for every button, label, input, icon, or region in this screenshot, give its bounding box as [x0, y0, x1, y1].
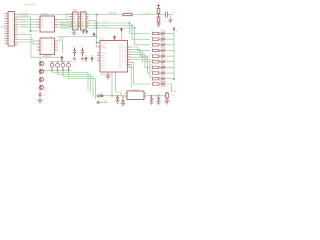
capacitor C11 left column [38, 93, 41, 98]
svg-text:XTAL2: XTAL2 [102, 47, 108, 50]
svg-text:Q1 4MHz: Q1 4MHz [130, 89, 139, 91]
resistor R6 label [151, 59, 153, 61]
pin header JP1 pins [70, 14, 89, 27]
LED D5 [162, 53, 166, 58]
LED D1 [162, 31, 166, 36]
vcc arrows right of caps [85, 57, 93, 62]
svg-text:T3: T3 [45, 79, 47, 81]
resistor R10 label [151, 81, 154, 83]
svg-text:R5: R5 [151, 53, 153, 55]
top-right resistor R18 vertical lower [157, 15, 160, 25]
wire y36.5 from left to IC1 [57, 37, 97, 54]
crystal Q1 box [127, 91, 144, 100]
top-right ground under R18 [157, 24, 161, 27]
resistor R2 label [151, 36, 153, 38]
bottom labels near jumpers [100, 93, 102, 95]
junction dots caps bottom [51, 70, 69, 72]
wire LED1 to rail [164, 33, 174, 35]
pin header JP1 inner pin marks [73, 14, 83, 27]
wire IC1 P1.6 to LED row10 [131, 62, 151, 84]
IC U2 right pins [55, 20, 58, 28]
LED anode rail [173, 31, 175, 79]
wire IC1 P1.4 to LED row8 [131, 57, 151, 73]
IC IC1 name below [100, 73, 112, 76]
wire LED6 to rail [164, 61, 174, 63]
net label GND left of connector [1, 27, 6, 29]
svg-text:T4: T4 [45, 87, 47, 89]
wire IC1 P1.1 to LED row5 [131, 50, 151, 57]
top-right resistor R17 vertical [157, 9, 160, 15]
label T1 [45, 63, 47, 65]
IC IC1 body [100, 41, 128, 73]
connector X1 pin numbers [9, 13, 14, 45]
transistor T4 [39, 85, 43, 89]
transistor T3 [39, 77, 43, 81]
capacitor C3 electrolytic [56, 62, 60, 71]
pin header JP1 column A [73, 12, 79, 30]
label C6 [72, 46, 75, 48]
top-right capacitor plus sign [163, 11, 165, 13]
wire bus net3 to LED row3 [135, 28, 151, 45]
svg-text:25: 25 [9, 43, 11, 45]
labels above vcc arrows [84, 56, 94, 58]
LED D10 label [160, 80, 164, 82]
wire IC1 P1.2 to LED row6 [131, 52, 151, 62]
wire LED5 to rail [164, 55, 174, 57]
resistor R9 [152, 78, 161, 80]
caps bottom wire [49, 70, 72, 72]
wire bus to IC1 region [58, 21, 135, 29]
wire LED9 to rail [164, 78, 174, 80]
capacitor C7 polarized near JP1 [81, 48, 84, 57]
LED D2 [162, 36, 166, 41]
LED D1 label [160, 30, 164, 32]
capacitor C5 electrolytic [67, 62, 71, 71]
resistor R5 [152, 55, 161, 57]
rail end junction dot [173, 78, 175, 80]
IC IC1 right pins [128, 47, 131, 67]
wire LED2 to rail [164, 38, 174, 40]
svg-text:HC49: HC49 [171, 95, 176, 97]
resistor R9 label [151, 76, 153, 78]
svg-text:A: A [176, 30, 178, 34]
IC IC1 right pin numbers [125, 47, 127, 69]
label T4 [45, 87, 47, 89]
svg-text:16MHz: 16MHz [171, 91, 177, 93]
resistor R3 label [151, 42, 153, 44]
svg-text:GND: GND [1, 27, 6, 29]
bottom right labels [171, 91, 177, 96]
resistor R4 label [151, 48, 153, 50]
svg-text:R10: R10 [151, 81, 154, 83]
svg-text:R4: R4 [151, 48, 153, 50]
IC U3 left pins [37, 41, 40, 50]
wire connector to U2 pins [18, 20, 38, 28]
wire LED4 to rail [164, 49, 174, 51]
junction dot x30.5 y31 [30, 30, 32, 32]
wire LED10 right [164, 84, 171, 92]
label C11 [43, 95, 46, 97]
ground under C12 [121, 103, 125, 106]
resistor R8 [152, 72, 161, 74]
junction dot x96.5 y36.5 [96, 36, 98, 38]
junction dots x96.5 [96, 14, 98, 30]
IC U3 pin names [41, 40, 53, 52]
LED D6 label [160, 58, 164, 60]
LED D4 label [160, 47, 164, 49]
LED D6 [162, 59, 166, 64]
top-right capacitor wire and ground [168, 15, 171, 21]
ground under C8 [115, 101, 119, 104]
svg-text:P1.6: P1.6 [21, 26, 25, 28]
left column vertical wire [31, 57, 49, 99]
svg-text:P3.7: P3.7 [102, 68, 106, 70]
LED D9 label [160, 75, 164, 77]
svg-text:1: 1 [125, 67, 126, 69]
top-right junction dot [158, 14, 160, 16]
svg-text:T2: T2 [45, 71, 47, 73]
transistor T1 [39, 61, 43, 65]
wire U2 outputs to JP1 [58, 14, 71, 27]
IC U2 left pins [37, 20, 40, 28]
top-right +5V symbol [157, 4, 160, 8]
LED D3 label [160, 41, 164, 43]
label under row9 [160, 82, 168, 84]
svg-text:LEDCOM: LEDCOM [160, 87, 168, 89]
connector X1 right pins [15, 15, 18, 45]
top-right capacitor C1 [166, 12, 168, 18]
junction dot C10 [158, 95, 160, 97]
wire connector lower pins to U3 [18, 37, 38, 44]
resistor R7 label [151, 65, 153, 67]
resistor R7 [152, 66, 161, 68]
wire J2 right [99, 101, 108, 103]
IC U2 pin names [41, 18, 53, 29]
IC U2 label [41, 13, 48, 16]
svg-text:24: 24 [12, 42, 14, 44]
svg-text:P1.5: P1.5 [21, 21, 25, 23]
resistor R2 [152, 38, 161, 40]
svg-text:R2: R2 [151, 36, 153, 38]
resistor R6 [152, 61, 161, 63]
ground under IC1 [106, 74, 111, 79]
resistor R10 [152, 83, 161, 85]
svg-text:R7: R7 [151, 65, 153, 67]
svg-text:S1: S1 [100, 93, 102, 95]
top-right cap ground [169, 20, 173, 23]
bottom right vertical part R20 [166, 92, 169, 101]
bottom cluster jumper J2 pad [97, 101, 99, 103]
label T2 [45, 71, 47, 73]
svg-text:RESET: RESET [109, 12, 118, 15]
IC U2 body [40, 16, 55, 32]
bottom wire horizontal y95.8 [103, 95, 167, 97]
wire xtal1 vertical [111, 74, 113, 96]
bus net labels [103, 21, 108, 28]
rail top label A [176, 30, 178, 34]
LED D8 label [160, 69, 164, 71]
connector X1 left pins [5, 14, 9, 44]
wire bus net1 to LED row1 [130, 23, 151, 34]
net label on wire y57 [42, 56, 50, 58]
title label ALE MODE [24, 4, 37, 7]
bottom capacitor C12 [121, 96, 124, 104]
wire stubs under C6 C7 [75, 56, 83, 58]
svg-text:ALE MODE: ALE MODE [24, 4, 37, 7]
wire IC1 P1.5 to LED row9 [131, 60, 151, 79]
wire IC1 P1.0 to LED row4 [131, 47, 151, 50]
bottom cluster jumper J1 pad [97, 95, 99, 97]
label C7 [80, 46, 83, 48]
crystal Q1 pins [125, 94, 146, 98]
LED D7 label [160, 64, 164, 66]
svg-text:C2/RST: C2/RST [42, 56, 50, 58]
wire xtal2 vertical [116, 74, 122, 96]
vcc arrow above caps [61, 56, 63, 62]
ground under C10 [156, 102, 160, 105]
wire bus y31 from junction [31, 30, 39, 32]
svg-text:IC1: IC1 [100, 38, 104, 41]
label under row10 [160, 87, 168, 89]
ground under C6 [73, 58, 77, 61]
wire top long net y14.5 [18, 14, 159, 16]
bottom capacitor C8 [116, 96, 119, 101]
wire label P3.0 [20, 13, 30, 35]
IC U3 right pins [55, 41, 58, 50]
rail top vcc arrow [173, 28, 175, 32]
vcc arrow under JP1 [82, 30, 84, 34]
resistor R1 label [151, 31, 153, 33]
resistor R8 label [151, 70, 153, 72]
transistor T2 [39, 69, 43, 73]
connector X1 [8, 12, 15, 47]
IC1 label [100, 38, 104, 41]
IC IC1 left pins [97, 43, 100, 61]
resistor R16 label [109, 12, 118, 15]
ground bottom left [38, 99, 43, 103]
pin header JP1 label [73, 9, 78, 12]
wire vertical x96.5 into IC1 left [96, 15, 99, 48]
pin header JP1 column B [81, 12, 87, 30]
junction dots on bus bends [129, 22, 136, 29]
svg-text:R8: R8 [151, 70, 153, 72]
resistor R1 [152, 32, 161, 34]
svg-text:R6: R6 [151, 59, 153, 61]
svg-text:T1: T1 [45, 63, 47, 65]
bottom right ground [165, 101, 170, 104]
capacitor C2 electrolytic [50, 62, 54, 71]
IC U3 body [40, 38, 55, 54]
wire U3 outputs right [58, 37, 61, 45]
LED D7 [162, 64, 166, 69]
decoupling caps top wire [49, 61, 72, 63]
svg-text:R1: R1 [151, 31, 153, 33]
junction dot x96.5 y42.5 [96, 42, 98, 44]
capacitor C6 polarized near JP1 [73, 48, 76, 57]
svg-text:C6+: C6+ [72, 46, 75, 48]
LED D4 [162, 47, 166, 52]
wire LED8 to rail [164, 72, 174, 74]
resistor R5 label [151, 53, 153, 55]
svg-text:R9: R9 [151, 76, 153, 78]
capacitor C9 below wire [150, 96, 153, 103]
capacitor C4 electrolytic [61, 62, 65, 71]
label 4x near header [62, 25, 64, 27]
top-right wire to cap [159, 14, 166, 16]
svg-text:LEDCOM: LEDCOM [160, 82, 168, 84]
resistor R4 [152, 49, 161, 51]
svg-text:C11: C11 [43, 95, 46, 97]
wire from vcc into IC1 top [121, 32, 123, 41]
LED D9 [162, 76, 166, 81]
ground under C9 [149, 102, 153, 105]
IC U3 label [44, 55, 51, 58]
resistor R16 horizontal on top net [123, 13, 132, 15]
wire IC1 P1.7 down [130, 65, 133, 88]
svg-text:AT89C2051: AT89C2051 [100, 73, 112, 76]
diode D11 [99, 95, 103, 98]
wire bus net2 to LED row2 [132, 26, 150, 40]
vcc arrow top right of IC1 [120, 28, 122, 32]
vcc arrow left of IC1 [93, 33, 95, 37]
top-right net label [141, 13, 152, 15]
wire IC1 P1.3 to LED row7 [131, 55, 151, 68]
LED D2 label [160, 36, 164, 38]
capacitor C10 below wire [157, 96, 160, 103]
wire IC1 RST stub [131, 66, 134, 68]
svg-text:C7+: C7+ [80, 46, 83, 48]
IC1 xtal bottom pins [112, 72, 116, 74]
vcc arrow under JP2 [86, 30, 88, 34]
svg-text:P3.7(RST): P3.7(RST) [141, 13, 152, 15]
ground under C7 [81, 58, 85, 61]
fan wires nested Ls to bottom cluster [52, 71, 96, 100]
resistor R3 [152, 44, 161, 46]
LED D10 [162, 81, 166, 86]
LED D5 label [160, 53, 164, 55]
vcc arrow above IC1 [113, 36, 115, 41]
ground under JP1 [72, 30, 76, 34]
IC IC1 bottom pin [107, 72, 109, 74]
label J2 [104, 101, 108, 103]
wire LED3 to rail [164, 44, 174, 46]
crystal Q1 label [130, 89, 139, 91]
wire connector y34.5 down to y57 [18, 35, 62, 62]
IC IC1 pin names [102, 42, 124, 70]
LED D8 [162, 70, 166, 75]
wire connector y17 stub [18, 17, 31, 31]
bottom junction dots [111, 95, 152, 97]
junction dot left column rail [39, 70, 41, 72]
top-right cap label C1 [172, 13, 176, 16]
wire LED7 to rail [164, 66, 174, 68]
label T3 [45, 79, 47, 81]
svg-text:R3: R3 [151, 42, 153, 44]
LED D3 [162, 42, 166, 47]
